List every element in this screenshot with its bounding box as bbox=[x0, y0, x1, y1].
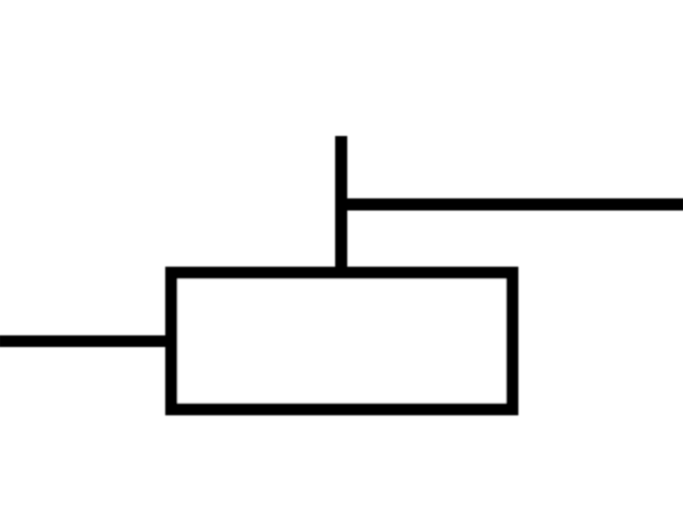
wire bbox=[341, 198, 683, 210]
resistor R1 bbox=[171, 273, 512, 410]
wire bbox=[0, 335, 167, 347]
wire bbox=[335, 136, 347, 273]
